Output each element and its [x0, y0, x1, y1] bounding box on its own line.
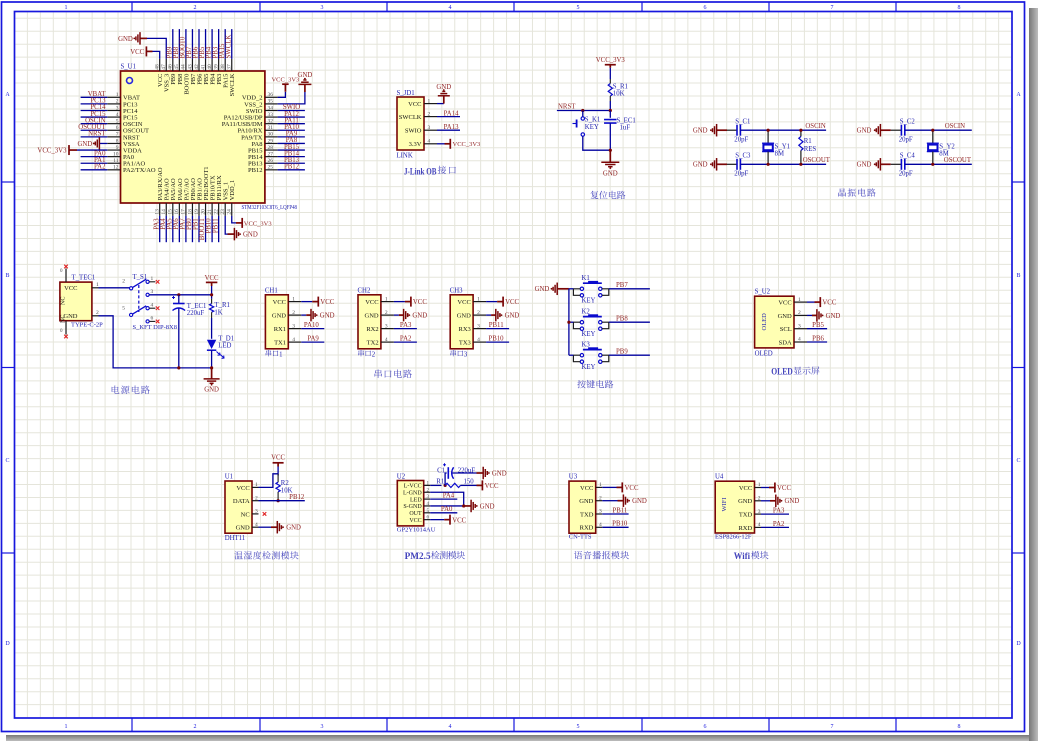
title reset circuit	[590, 191, 598, 199]
svg-text:4: 4	[292, 337, 295, 343]
svg-text:CH1: CH1	[265, 288, 278, 295]
svg-text:PA2/TX/AO: PA2/TX/AO	[123, 167, 156, 174]
power port VCC_3V3 above U1 pin 36	[282, 83, 289, 85]
svg-text:6: 6	[151, 316, 154, 322]
capacitor C1 220uF	[447, 467, 449, 479]
wire bus to K2	[569, 321, 574, 323]
U1 pin 15 wire	[172, 216, 174, 242]
CH3 pin 3 wire	[486, 328, 509, 330]
svg-text:29: 29	[268, 138, 274, 144]
led T_D1 LED	[207, 340, 216, 349]
svg-text:38: 38	[220, 64, 226, 70]
junction NRST/cap	[609, 109, 612, 112]
svg-text:U3: U3	[569, 473, 578, 480]
U3 pin 4 wire	[602, 526, 628, 528]
U1 pin 21 PB10/TX	[211, 203, 213, 216]
svg-text:3: 3	[321, 724, 324, 730]
U1 pin 25 wire	[278, 169, 305, 171]
svg-text:PB11: PB11	[212, 218, 219, 233]
power port GND power circuit	[211, 368, 213, 379]
svg-text:PB7: PB7	[616, 282, 628, 289]
U1 pin 33 PA12/USB/DP	[265, 116, 278, 118]
wire C1 to GND	[452, 472, 476, 474]
connector T_TEC1 TYPE-C-2P body	[60, 282, 92, 321]
svg-text:VCC_3V3: VCC_3V3	[271, 77, 299, 84]
svg-text:NRST: NRST	[558, 104, 576, 111]
CH3 pin 2 wire to GND	[486, 314, 491, 316]
svg-text:6: 6	[704, 5, 707, 11]
title serial circuit	[375, 370, 382, 378]
svg-text:1: 1	[151, 276, 154, 282]
svg-text:C1: C1	[437, 467, 445, 474]
svg-text:TX3: TX3	[459, 340, 471, 347]
svg-text:GND: GND	[204, 387, 219, 394]
svg-text:4: 4	[427, 501, 430, 507]
svg-text:K3: K3	[582, 342, 591, 349]
svg-text:2: 2	[372, 351, 376, 358]
svg-text:20pF: 20pF	[734, 137, 748, 144]
DHT11 pin 4 GND	[252, 526, 259, 528]
U1 pin 37 wire	[231, 29, 233, 59]
svg-text:R2: R2	[281, 480, 290, 487]
svg-text:GND: GND	[603, 171, 618, 178]
svg-text:32: 32	[268, 118, 274, 124]
wire resistor to NRST node	[609, 101, 611, 111]
U1 pin 40 wire	[211, 29, 213, 59]
svg-text:S_JD1: S_JD1	[397, 90, 415, 97]
svg-text:T_S1: T_S1	[133, 274, 148, 281]
svg-text:15: 15	[168, 209, 174, 215]
svg-text:Wifi: Wifi	[734, 551, 751, 561]
svg-text:18: 18	[187, 209, 193, 215]
T_TEC1 shell pin bottom NC	[65, 321, 67, 335]
svg-text:39: 39	[213, 64, 219, 70]
svg-text:19: 19	[194, 209, 200, 215]
svg-text:L-GND: L-GND	[403, 490, 422, 496]
wire TEC1 VCC to switch	[99, 287, 130, 289]
svg-text:PB12: PB12	[284, 164, 300, 171]
svg-text:1: 1	[599, 482, 602, 488]
svg-text:4: 4	[255, 522, 258, 528]
svg-text:2: 2	[194, 5, 197, 11]
svg-text:PB6: PB6	[812, 336, 824, 343]
U1 pin 41 wire	[205, 29, 207, 59]
key K1 KEY	[583, 282, 602, 284]
svg-text:2: 2	[96, 310, 99, 316]
U1 pin 42 wire	[198, 29, 200, 59]
svg-text:VCC: VCC	[580, 485, 593, 492]
svg-text:T_R1: T_R1	[214, 302, 229, 309]
svg-text:9: 9	[116, 145, 119, 151]
svg-text:S_C1: S_C1	[735, 119, 750, 126]
CH1 comment serial port 1	[266, 350, 272, 356]
svg-text:RX2: RX2	[366, 326, 378, 333]
U1 pin 15 PA5/AO	[172, 203, 174, 216]
svg-text:GND: GND	[77, 141, 92, 148]
svg-text:20pF: 20pF	[899, 137, 913, 144]
switch T_S1 pole B nc wires	[149, 307, 155, 309]
svg-text:4: 4	[798, 337, 801, 343]
svg-text:VCC: VCC	[273, 299, 286, 306]
wire K3 to net	[609, 354, 650, 356]
svg-text:VCC_3V3: VCC_3V3	[596, 57, 626, 64]
junction cap/gnd	[609, 149, 612, 152]
svg-text:GND: GND	[535, 286, 550, 293]
T_TEC1 pin 2 GND	[92, 315, 99, 317]
svg-text:SCL: SCL	[780, 326, 792, 333]
CH2 pin 4 TX2	[381, 341, 394, 343]
svg-text:1: 1	[96, 282, 99, 288]
U1 pin 20 wire	[205, 216, 207, 242]
junction crystal bottom	[931, 163, 934, 166]
svg-text:4: 4	[151, 302, 154, 308]
svg-text:5: 5	[577, 724, 580, 730]
svg-text:2: 2	[428, 111, 431, 117]
svg-text:36: 36	[268, 92, 274, 98]
svg-text:PB12: PB12	[248, 167, 262, 174]
CH1 pin 3 RX1	[288, 328, 301, 330]
CH2 pin 2 GND	[381, 314, 394, 316]
svg-text:PA10: PA10	[304, 322, 319, 329]
U2 pin 5 wire	[430, 512, 457, 514]
U1 pin 19 wire	[198, 216, 200, 242]
U1 pin 17 PA7/AO	[185, 203, 187, 216]
U1 pin 30 PA9/TX	[265, 136, 278, 138]
svg-text:GND: GND	[693, 128, 708, 135]
junction res top	[799, 129, 802, 132]
S_U2 pin 1 wire to VCC	[807, 301, 815, 303]
wire key bus vertical	[568, 289, 570, 355]
svg-text:8: 8	[116, 138, 119, 144]
junction bus K2	[567, 321, 570, 324]
svg-text:3: 3	[321, 5, 324, 11]
connector S_JD1 body	[397, 97, 424, 150]
svg-text:8M: 8M	[939, 151, 948, 158]
power port GND at U4	[775, 495, 777, 508]
CH2 pin 1 VCC	[381, 301, 394, 303]
svg-text:VCC: VCC	[271, 455, 285, 462]
wire bus to K3	[569, 354, 574, 356]
U1 pin 46 wire	[172, 29, 174, 59]
wire key to GND rail	[583, 136, 611, 150]
svg-text:150: 150	[464, 479, 475, 486]
svg-text:37: 37	[227, 64, 233, 70]
svg-text:45: 45	[174, 64, 180, 70]
svg-text:PA4: PA4	[443, 493, 455, 500]
svg-text:4: 4	[385, 337, 388, 343]
switch T_S1 coupling dashed	[138, 285, 140, 312]
svg-text:TYPE-C-2P: TYPE-C-2P	[71, 321, 103, 328]
svg-text:20pF: 20pF	[734, 171, 748, 178]
switch T_S1 S_KFT DIP-8X8 pole A	[130, 287, 133, 290]
power port GND above U1 pin 35	[298, 83, 311, 85]
U1 pin 13 PA3/RX/AO	[159, 203, 161, 216]
U1 pin 16 PA6/AO	[178, 203, 180, 216]
CH2 pin 3 wire	[394, 328, 417, 330]
svg-text:24: 24	[227, 209, 233, 215]
svg-text:1: 1	[65, 5, 68, 11]
U1 pin 24 VDD_1 wire to VCC_3V3	[232, 216, 236, 223]
power port GND at U1 pin 47	[139, 32, 141, 45]
svg-text:T_TEC1: T_TEC1	[72, 275, 96, 282]
U4 pin 3 wire	[761, 513, 789, 515]
svg-text:VCC: VCC	[778, 300, 791, 307]
U1 pin 5 wire	[81, 123, 108, 125]
DHT11 pin 4 wire to GND	[259, 526, 272, 528]
U1 pin 18 PB0/AO	[191, 203, 193, 216]
junction crystal top	[931, 129, 934, 132]
U3 pin 4 RXD	[596, 526, 603, 528]
wire resistor to LED	[211, 318, 213, 339]
svg-text:PA3: PA3	[400, 322, 412, 329]
svg-text:GND: GND	[412, 313, 427, 320]
svg-text:4: 4	[599, 522, 602, 528]
svg-text:5: 5	[427, 508, 430, 514]
svg-text:A: A	[1016, 92, 1021, 98]
U1 pin 11 wire	[81, 162, 108, 164]
crystal S_Y1 8M	[767, 130, 769, 143]
svg-text:S_C3: S_C3	[735, 153, 751, 160]
svg-text:PB11: PB11	[612, 507, 627, 514]
S_JD1 pin 4 wire to VCC_3V3	[437, 143, 445, 145]
U1 pin 26 PB13	[265, 162, 278, 164]
U1 pin 36 VDD_2	[265, 96, 278, 98]
svg-text:STM32F103C8T6_LQFP48: STM32F103C8T6_LQFP48	[242, 204, 298, 211]
U1 pin 43 PB7	[191, 59, 193, 71]
U1 pin 29 wire	[278, 142, 305, 144]
svg-text:LINK: LINK	[397, 153, 413, 160]
U4 pin 4 wire	[761, 526, 789, 528]
CH3 pin 1 wire to VCC	[486, 301, 497, 303]
svg-text:2: 2	[122, 279, 125, 285]
U1 pin 43 wire	[191, 29, 193, 59]
svg-text:5: 5	[116, 118, 119, 124]
svg-text:PA3: PA3	[773, 508, 785, 515]
CH2 pin 1 wire to VCC	[394, 301, 405, 303]
svg-text:K2: K2	[582, 309, 591, 316]
svg-text:A: A	[5, 92, 10, 98]
capacitor S_EC1 1uF	[609, 111, 611, 118]
U1 pin 46 PB9	[172, 59, 174, 71]
U1 pin 1 wire	[81, 96, 108, 98]
power port GND at C1	[482, 467, 484, 480]
junction pin1/C1	[444, 484, 447, 487]
svg-text:ESP8266-12F: ESP8266-12F	[715, 534, 752, 541]
svg-text:K1: K1	[582, 275, 590, 282]
svg-text:2: 2	[477, 310, 480, 316]
svg-text:PA2: PA2	[400, 336, 412, 343]
CH3 pin 3 RX3	[473, 328, 486, 330]
U1 pin 21 wire	[211, 216, 213, 242]
wire switch out to VCC column	[149, 294, 211, 296]
junction crystal top	[767, 129, 770, 132]
power port GND at U1 pin 23	[233, 228, 235, 241]
svg-text:3: 3	[599, 509, 602, 515]
svg-text:SWCLK: SWCLK	[229, 73, 236, 96]
svg-text:3: 3	[427, 494, 430, 500]
U1 pin 39 wire	[218, 29, 220, 59]
U1 pin 2 PC13	[107, 103, 120, 105]
U2 pin 1 L-VCC	[424, 484, 431, 486]
U3 pin 2 GND	[596, 500, 603, 502]
svg-text:LED: LED	[410, 497, 422, 503]
svg-text:VCC_3V3: VCC_3V3	[453, 141, 481, 148]
U1 pin 40 PB4	[211, 59, 213, 71]
svg-text:PB12: PB12	[289, 494, 305, 501]
CH2 pin 4 wire	[394, 341, 417, 343]
svg-text:GND: GND	[492, 470, 507, 477]
svg-text:J-Link OB: J-Link OB	[404, 167, 437, 177]
svg-text:22: 22	[213, 209, 219, 215]
U1 pin 7 wire	[81, 136, 108, 138]
junction R2/DATA	[277, 499, 280, 502]
U1 pin 6 OSCOUT	[107, 129, 120, 131]
crystal S_Y2 8M	[932, 130, 934, 143]
power port GND at U3	[622, 494, 624, 507]
S_U2 pin 2 wire to GND	[807, 314, 812, 316]
svg-text:1: 1	[116, 92, 119, 98]
U1 pin 26 wire	[278, 162, 305, 164]
wire R1 to VCC	[461, 484, 477, 486]
svg-text:4: 4	[449, 5, 452, 11]
U1 pin 44 BOOT0	[185, 59, 187, 71]
title key circuit	[577, 380, 585, 388]
U1 pin 41 PB5	[205, 59, 207, 71]
U1 pin 34 wire	[278, 109, 305, 111]
S_JD1 pin 4 3.3V	[424, 143, 437, 145]
svg-text:10: 10	[113, 151, 119, 157]
title power circuit	[112, 385, 120, 393]
wire VCC down	[211, 286, 213, 299]
U3 pin 2 wire to GND	[602, 500, 617, 502]
DHT11 pin 1 VCC	[252, 486, 259, 488]
svg-text:3.3V: 3.3V	[409, 141, 422, 148]
svg-text:VCC: VCC	[236, 485, 249, 492]
svg-text:3: 3	[255, 509, 258, 515]
svg-text:28: 28	[268, 145, 274, 151]
module U3 CN-TTS body	[569, 481, 596, 533]
CH1 pin 4 TX1	[288, 341, 301, 343]
U1 pin 34 SWIO	[265, 109, 278, 111]
CH3 comment serial port 3	[450, 350, 456, 356]
connector CH3 body	[450, 295, 473, 349]
power port VCC at U1 pin 48	[145, 46, 147, 56]
U2 pin 6 wire to VCC	[430, 519, 444, 521]
svg-text:RX1: RX1	[274, 326, 286, 333]
U1 pin 24 VDD_1	[231, 203, 233, 216]
S_JD1 pin 3 wire	[437, 129, 460, 131]
svg-text:7: 7	[116, 132, 119, 138]
S_JD1 pin 3 SWIO	[424, 129, 437, 131]
U1 pin 11 PA1/AO	[107, 162, 120, 164]
CH3 pin 1 VCC	[473, 301, 486, 303]
mcu U1 body STM32F103C8T6_LQFP48	[121, 71, 265, 203]
U1 pin 4 PC15	[107, 116, 120, 118]
svg-text:U1: U1	[225, 474, 233, 481]
junction crystal bottom	[767, 163, 770, 166]
U1 pin 35 VSS_2	[265, 103, 278, 105]
svg-text:25: 25	[268, 165, 274, 171]
U1 pin 10 PA0	[107, 156, 120, 158]
svg-text:R1: R1	[804, 138, 812, 145]
U1 pin 23 VSS_1 wire to GND	[225, 216, 227, 234]
CH1 pin 1 wire to VCC	[301, 301, 312, 303]
capacitor S_C4 20pF	[891, 163, 902, 165]
U1 pin 38 wire	[224, 29, 226, 59]
svg-text:VCC: VCC	[822, 300, 836, 307]
svg-text:VCC_3V3: VCC_3V3	[244, 220, 272, 227]
svg-text:OLED: OLED	[771, 367, 793, 377]
svg-text:33: 33	[268, 112, 274, 118]
U1 pin 19 PB1/AO	[198, 203, 200, 216]
U1 pin 44 wire	[185, 29, 187, 59]
svg-text:PA0: PA0	[441, 506, 453, 513]
junction cap bottom	[177, 366, 180, 369]
key K3 KEY	[583, 349, 602, 351]
U1 pin 48 VCC wire	[153, 51, 160, 59]
capacitor S_C2 20pF	[891, 129, 902, 131]
S_U2 pin 3 wire	[807, 328, 827, 330]
capacitor S_C3 20pF	[727, 163, 737, 165]
junction VCC/switch wire	[210, 293, 213, 296]
svg-text:VCC: VCC	[625, 485, 639, 492]
svg-text:26: 26	[268, 158, 274, 164]
sensor U1 DHT11 body	[225, 481, 252, 533]
page drop shadow bottom	[6, 735, 1029, 741]
svg-text:1K: 1K	[214, 309, 222, 316]
svg-text:OLED: OLED	[761, 313, 768, 331]
svg-text:KEY: KEY	[585, 124, 599, 131]
svg-text:PA9: PA9	[307, 336, 319, 343]
U4 pin 2 wire to GND	[761, 500, 770, 502]
svg-text:20pF: 20pF	[899, 171, 913, 178]
DHT11 pin 3 NC	[252, 513, 259, 515]
junction pin4/pin2	[462, 504, 465, 507]
svg-text:B: B	[5, 273, 9, 279]
connector CH1 body	[265, 295, 288, 349]
svg-text:2: 2	[385, 310, 388, 316]
U1 pin 8 VSSA wire	[99, 142, 107, 144]
svg-text:6: 6	[116, 125, 119, 131]
U4 pin 3 TXD	[755, 513, 762, 515]
resistor R2 10K	[277, 474, 279, 482]
U1 pin 45 PB8	[178, 59, 180, 71]
resistor R1 RES feedback	[800, 130, 802, 136]
title voice module	[574, 551, 582, 559]
svg-text:GND: GND	[243, 232, 258, 239]
svg-text:43: 43	[187, 64, 193, 70]
wire NRST horizontal	[557, 110, 610, 112]
svg-text:2: 2	[599, 495, 602, 501]
U1 pin 18 wire	[191, 216, 193, 242]
svg-text:5: 5	[577, 5, 580, 11]
zone tick marks	[131, 2, 133, 12]
S_JD1 pin 2 SWCLK	[424, 116, 437, 118]
U1 pin 35 VSS_2 wire to GND	[278, 92, 305, 104]
CH1 pin 2 GND	[288, 314, 301, 316]
svg-text:1: 1	[255, 482, 258, 488]
svg-text:3: 3	[758, 509, 761, 515]
power port VCC at CH3	[502, 297, 504, 307]
svg-text:TXD: TXD	[739, 512, 753, 519]
key K2 KEY	[583, 316, 602, 318]
svg-text:VDD_1: VDD_1	[229, 180, 236, 201]
svg-text:VCC: VCC	[130, 49, 144, 56]
U1 pin 47 VSS_3	[165, 59, 167, 71]
U1 pin 31 wire	[278, 129, 305, 131]
power port VCC at S_U2	[819, 297, 821, 307]
svg-text:GND: GND	[286, 525, 301, 532]
